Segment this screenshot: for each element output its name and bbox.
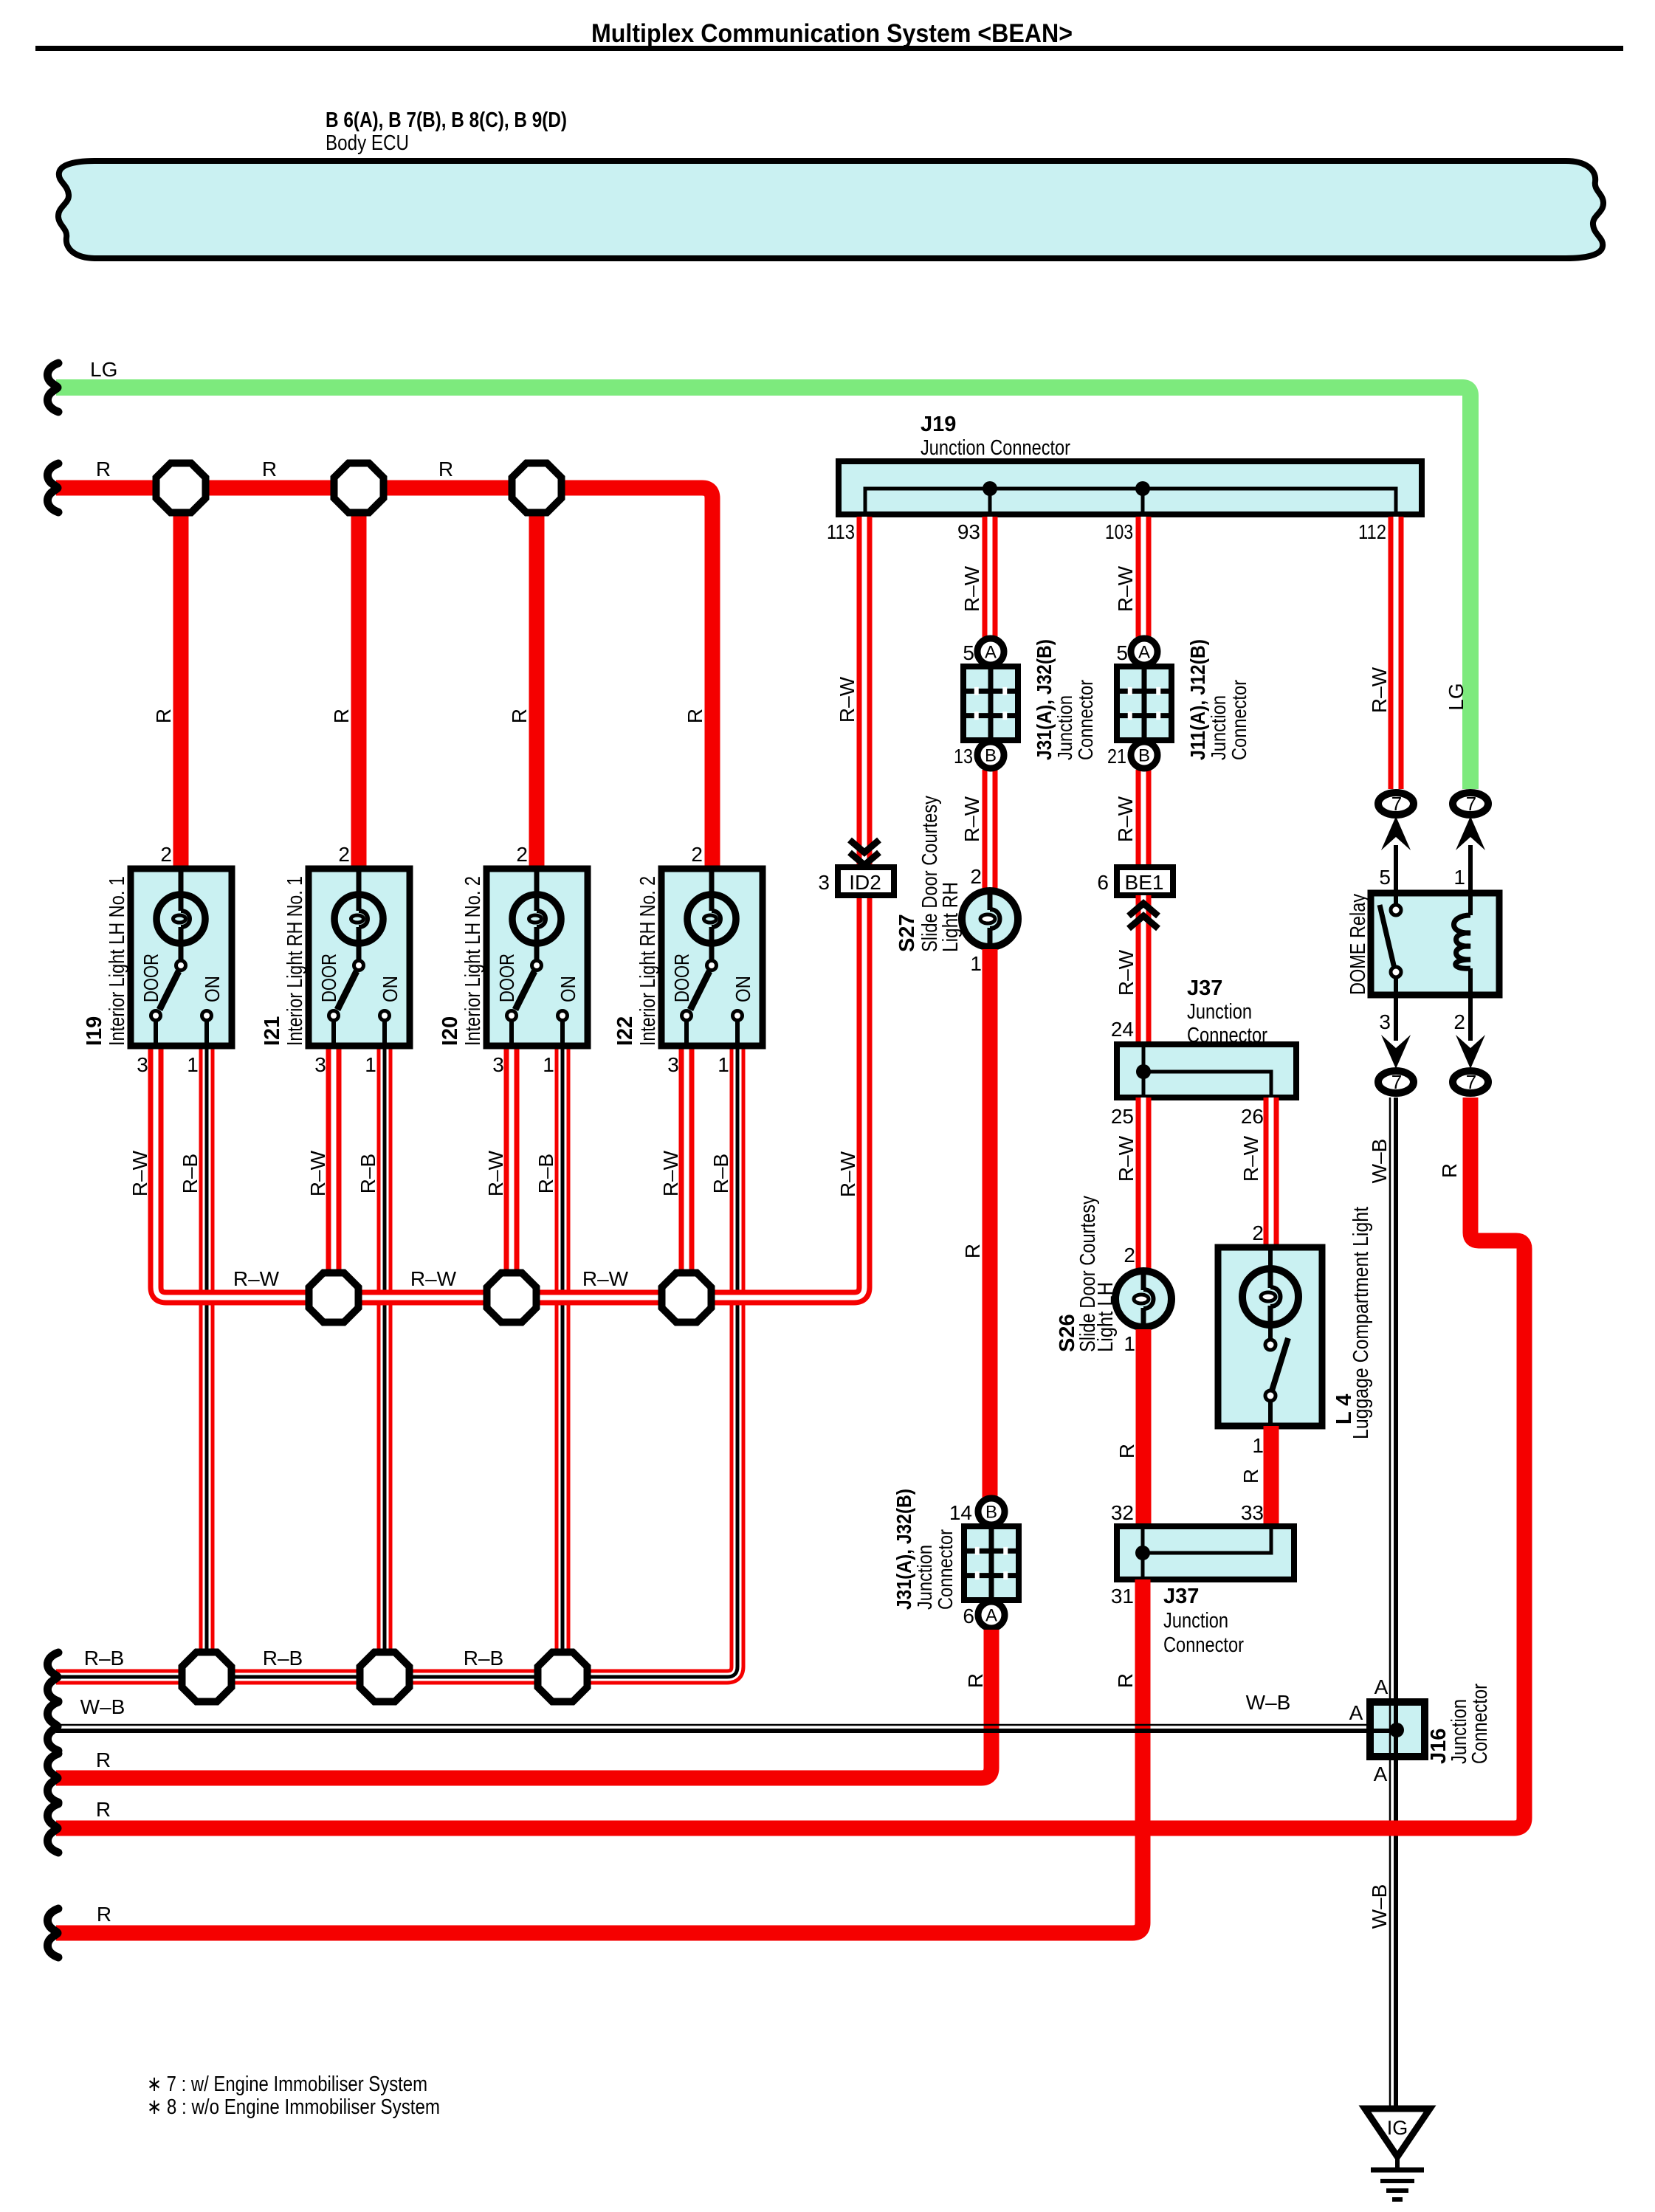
svg-text:R–W: R–W [960, 796, 983, 842]
svg-text:R: R [684, 709, 706, 723]
svg-text:Junction: Junction [913, 1545, 936, 1610]
wire R-B bus [56, 1046, 737, 1677]
svg-text:7: 7 [1391, 793, 1402, 815]
svg-text:R–W: R–W [1114, 565, 1137, 612]
junction node B2 [487, 1273, 537, 1323]
svg-text:J11(A), J12(B): J11(A), J12(B) [1186, 639, 1209, 760]
svg-text:Multiplex Communication System: Multiplex Communication System <BEAN> [591, 19, 1073, 48]
arrow to ID2 [850, 840, 879, 865]
arrow from BE1 [1129, 903, 1158, 928]
svg-text:Interior Light LH No. 1: Interior Light LH No. 1 [106, 876, 129, 1046]
wire LG from Body ECU to DOME relay [56, 387, 1470, 789]
svg-text:DOME Relay: DOME Relay [1346, 894, 1370, 995]
wire R-W pin3 drop x=693 [504, 1046, 520, 1298]
wire R-W BE1 to J37 [1136, 895, 1152, 1044]
wire R-W J37 to S26 [1136, 1098, 1152, 1272]
relay DOME Relay [1371, 893, 1499, 995]
svg-text:R–W: R–W [1115, 1135, 1138, 1182]
svg-text:Light RH: Light RH [939, 882, 963, 952]
svg-text:31: 31 [1111, 1585, 1134, 1608]
svg-text:LG: LG [90, 358, 117, 381]
svg-text:1: 1 [187, 1053, 199, 1076]
svg-text:S27: S27 [895, 914, 919, 952]
svg-text:R–W: R–W [836, 1151, 859, 1197]
svg-text:R: R [96, 1798, 111, 1821]
connector 7 bottom-left [1378, 1071, 1414, 1093]
svg-text:93: 93 [957, 520, 980, 543]
lamp-switch L4 Luggage Compartment Light [1218, 1247, 1322, 1426]
break R-B bus [47, 1653, 58, 1701]
junction connector J19 [839, 461, 1422, 514]
wire relay pin3 [1394, 995, 1398, 1041]
svg-text:Connector: Connector [1074, 680, 1097, 760]
interior light I19 [131, 869, 232, 1046]
svg-text:B: B [985, 746, 997, 766]
svg-text:112: 112 [1358, 520, 1386, 543]
svg-text:Interior Light RH No. 1: Interior Light RH No. 1 [283, 876, 307, 1046]
wire R-W pin3 drop x=930 [679, 1046, 695, 1298]
svg-text:2: 2 [691, 843, 703, 866]
svg-text:Junction Connector: Junction Connector [921, 436, 1070, 460]
svg-text:103: 103 [1105, 520, 1133, 543]
svg-text:R–W: R–W [410, 1267, 457, 1290]
svg-text:24: 24 [1111, 1018, 1134, 1041]
svg-text:Junction: Junction [1163, 1609, 1228, 1633]
wire R from relay pin2 [56, 1098, 1524, 1828]
svg-text:ID2: ID2 [849, 871, 881, 894]
wire R J37 lower down [56, 1579, 1143, 1933]
svg-text:Light LH: Light LH [1094, 1282, 1118, 1352]
svg-text:3: 3 [314, 1053, 326, 1076]
break R bus [47, 464, 58, 512]
svg-text:ON: ON [732, 976, 754, 1002]
svg-text:∗ 8 : w/o Engine Immobiliser S: ∗ 8 : w/o Engine Immobiliser System [147, 2095, 440, 2119]
junction node A3 [512, 464, 562, 513]
svg-text:ON: ON [201, 976, 224, 1002]
svg-text:R: R [964, 1673, 987, 1688]
svg-text:R–W: R–W [128, 1150, 151, 1196]
svg-text:B: B [1138, 746, 1150, 766]
wire relay pin1 [1468, 845, 1473, 915]
break R line1 [47, 1754, 58, 1802]
arrow up into 7 right [1456, 816, 1485, 850]
svg-text:3: 3 [818, 871, 830, 894]
junction connector J11(A) J12(B) [1117, 638, 1171, 768]
svg-text:Connector: Connector [1228, 680, 1250, 760]
svg-text:R–B: R–B [534, 1154, 557, 1193]
svg-text:J37: J37 [1187, 976, 1222, 1000]
junction node A1 [156, 464, 206, 513]
svg-text:Interior Light LH No. 2: Interior Light LH No. 2 [461, 876, 485, 1046]
svg-text:W–B: W–B [1246, 1691, 1291, 1714]
svg-text:Interior Light RH No. 2: Interior Light RH No. 2 [636, 876, 660, 1046]
svg-text:BE1: BE1 [1125, 871, 1164, 894]
svg-text:2: 2 [970, 865, 982, 888]
svg-text:R–W: R–W [659, 1150, 682, 1196]
junction node C1 [182, 1653, 232, 1702]
svg-text:Luggage Compartment Light: Luggage Compartment Light [1349, 1207, 1373, 1439]
svg-text:3: 3 [1379, 1010, 1391, 1033]
svg-text:A: A [985, 643, 997, 663]
wire R-B pin1 drop x=521 [377, 1046, 393, 1677]
junction node C3 [538, 1653, 588, 1702]
svg-text:R: R [508, 709, 531, 723]
arrow up into 7 left [1381, 816, 1411, 850]
svg-text:R: R [1438, 1163, 1461, 1178]
break W-B [47, 1702, 58, 1751]
wire R drop x=486 [351, 488, 367, 869]
svg-text:R: R [438, 458, 453, 480]
svg-text:32: 32 [1111, 1501, 1134, 1524]
wire R-W bus [156, 895, 864, 1298]
svg-text:R–W: R–W [233, 1267, 280, 1290]
svg-text:R–B: R–B [84, 1647, 124, 1670]
svg-text:25: 25 [1111, 1105, 1134, 1128]
svg-text:J37: J37 [1163, 1585, 1199, 1608]
svg-text:6: 6 [1097, 871, 1109, 894]
wire R-W col 112 [1389, 517, 1404, 789]
svg-text:Body ECU: Body ECU [326, 131, 409, 155]
connector BE1 [1117, 867, 1173, 895]
svg-text:LG: LG [1445, 683, 1468, 710]
svg-text:I19: I19 [83, 1016, 106, 1046]
svg-text:Junction: Junction [1187, 1000, 1252, 1024]
wire R-W J11 to BE1 [1136, 770, 1152, 867]
svg-text:W–B: W–B [80, 1695, 125, 1718]
wire R-W pin3 drop x=452 [326, 1046, 342, 1298]
svg-text:R–W: R–W [960, 565, 983, 612]
svg-text:3: 3 [667, 1053, 679, 1076]
junction node A2 [334, 464, 384, 513]
wire R drop x=727 [529, 488, 545, 869]
svg-text:3: 3 [492, 1053, 504, 1076]
svg-text:2: 2 [1252, 1222, 1264, 1244]
svg-text:R–W: R–W [1368, 666, 1391, 713]
svg-text:1: 1 [718, 1053, 729, 1076]
wire relay pin2 [1468, 995, 1473, 1041]
svg-text:R–W: R–W [582, 1267, 629, 1290]
junction node B1 [309, 1273, 359, 1323]
svg-text:DOOR: DOOR [670, 954, 693, 1002]
svg-text:1: 1 [1124, 1332, 1135, 1355]
svg-text:7: 7 [1466, 793, 1476, 815]
svg-text:R–W: R–W [1115, 949, 1138, 996]
junction J16 dot [1389, 1723, 1404, 1737]
wire R J31A down [56, 1630, 991, 1778]
svg-text:5: 5 [963, 641, 974, 664]
svg-text:113: 113 [827, 520, 855, 543]
svg-text:R–B: R–B [179, 1154, 202, 1193]
junction connector J37 upper [1117, 1044, 1296, 1098]
svg-text:J19: J19 [921, 413, 956, 436]
interior light I20 [486, 869, 588, 1046]
break R line2 [47, 1804, 58, 1853]
wire R-W J37 to L4 [1264, 1098, 1279, 1247]
svg-text:I22: I22 [613, 1016, 637, 1046]
wire R-W col 93 upper [983, 517, 998, 652]
connector 7 top-right [1453, 793, 1488, 815]
svg-text:Junction: Junction [1053, 695, 1076, 760]
wire relay pin5 [1394, 845, 1398, 910]
svg-text:ON: ON [379, 976, 402, 1002]
svg-text:26: 26 [1241, 1105, 1264, 1128]
svg-text:2: 2 [160, 843, 172, 866]
wire R S27 down [983, 949, 998, 1498]
junction node B3 [662, 1273, 712, 1323]
svg-text:DOOR: DOOR [140, 954, 162, 1002]
svg-text:A: A [1374, 1675, 1389, 1698]
svg-text:33: 33 [1241, 1501, 1264, 1524]
junction connector J16 box [1370, 1702, 1425, 1757]
wire R-B pin1 drop x=762 [555, 1046, 571, 1677]
lamp S26 Slide Door Courtesy Light LH [1115, 1271, 1171, 1327]
svg-text:R–W: R–W [306, 1150, 329, 1196]
connector 7 bottom-right [1453, 1071, 1488, 1093]
wire R-W col 103 upper [1136, 517, 1152, 652]
svg-text:W–B: W–B [1368, 1139, 1391, 1184]
wire R-B pin1 drop x=280 [199, 1046, 215, 1677]
svg-text:R: R [96, 458, 111, 480]
svg-text:14: 14 [949, 1501, 972, 1524]
svg-text:R: R [1239, 1469, 1262, 1484]
arrow down into 7 right [1456, 1035, 1485, 1069]
svg-text:R: R [961, 1244, 984, 1258]
wire R bus top [56, 488, 712, 869]
junction node C2 [360, 1653, 410, 1702]
wire R L4 to J37 lower [1264, 1426, 1279, 1526]
svg-text:A: A [1349, 1701, 1363, 1724]
svg-text:3: 3 [137, 1053, 148, 1076]
svg-text:I20: I20 [438, 1016, 462, 1046]
svg-text:DOOR: DOOR [495, 954, 518, 1002]
svg-text:R: R [97, 1903, 111, 1926]
svg-text:1: 1 [365, 1053, 376, 1076]
svg-text:R: R [1115, 1444, 1138, 1458]
svg-text:B 6(A), B 7(B), B 8(C), B 9(D): B 6(A), B 7(B), B 8(C), B 9(D) [326, 108, 567, 132]
svg-text:I21: I21 [261, 1016, 284, 1046]
junction connector J37 lower [1117, 1526, 1294, 1579]
connector ID2 [838, 867, 894, 895]
svg-text:1: 1 [1252, 1434, 1264, 1457]
svg-text:R–W: R–W [836, 676, 859, 723]
svg-text:∗ 7 : w/ Engine Immobiliser Sy: ∗ 7 : w/ Engine Immobiliser System [147, 2073, 427, 2096]
wire W-B vertical [1390, 1098, 1396, 2107]
connector 7 top-left [1378, 793, 1414, 815]
svg-text:R–W: R–W [484, 1150, 507, 1196]
svg-text:R–B: R–B [709, 1154, 732, 1193]
svg-text:ON: ON [557, 976, 579, 1002]
break R line3 [47, 1909, 58, 1957]
svg-text:Connector: Connector [1163, 1633, 1244, 1657]
svg-text:1: 1 [1453, 866, 1465, 889]
svg-text:R: R [1114, 1673, 1137, 1688]
svg-text:Connector: Connector [1468, 1684, 1492, 1764]
svg-text:A: A [985, 1606, 997, 1626]
svg-text:2: 2 [338, 843, 350, 866]
svg-text:R: R [96, 1748, 111, 1771]
ground IG [1365, 2109, 1430, 2199]
svg-text:R–W: R–W [1114, 796, 1137, 842]
svg-text:DOOR: DOOR [317, 954, 340, 1002]
svg-text:1: 1 [543, 1053, 554, 1076]
svg-text:J31(A), J32(B): J31(A), J32(B) [1033, 639, 1056, 760]
svg-text:R–W: R–W [1239, 1135, 1262, 1182]
wire R S26 to J37 lower [1136, 1329, 1152, 1526]
svg-text:2: 2 [1124, 1244, 1135, 1267]
wire R drop x=245 [173, 488, 189, 869]
svg-text:R–B: R–B [357, 1154, 379, 1193]
interior light I22 [661, 869, 763, 1046]
wire W-B horizontal [56, 1725, 1392, 1731]
svg-text:R: R [152, 709, 175, 723]
svg-text:IG: IG [1387, 2117, 1408, 2139]
svg-text:Connector: Connector [1187, 1024, 1267, 1047]
svg-text:13: 13 [954, 745, 973, 768]
svg-text:21: 21 [1107, 745, 1126, 768]
svg-text:5: 5 [1116, 641, 1128, 664]
svg-text:5: 5 [1379, 866, 1391, 889]
wire R-W col 113 [857, 517, 873, 895]
svg-text:2: 2 [516, 843, 528, 866]
svg-text:R–B: R–B [464, 1647, 503, 1670]
junction connector J31(A) J32(B) upper [963, 638, 1018, 768]
svg-text:7: 7 [1466, 1071, 1476, 1093]
wire R-W J31 to S27 [983, 770, 998, 892]
arrow down into 7 left [1381, 1035, 1411, 1069]
svg-text:B: B [985, 1503, 997, 1523]
svg-text:1: 1 [970, 952, 982, 975]
svg-text:Connector: Connector [934, 1529, 957, 1610]
svg-text:7: 7 [1391, 1071, 1402, 1093]
svg-text:W–B: W–B [1368, 1884, 1391, 1929]
interior light I21 [309, 869, 410, 1046]
svg-text:A: A [1374, 1763, 1388, 1785]
svg-text:2: 2 [1453, 1010, 1465, 1033]
svg-text:R–B: R–B [263, 1647, 303, 1670]
title rule [35, 46, 1623, 51]
lamp S27 Slide Door Courtesy Light RH [962, 891, 1018, 947]
junction connector J31(A) J32(B) lower [964, 1498, 1019, 1628]
svg-text:R: R [262, 458, 277, 480]
svg-text:Junction: Junction [1207, 695, 1230, 760]
connector B6(A) B7(B) B8(C) B9(D) Body ECU [58, 161, 1603, 258]
break LG [47, 363, 58, 412]
svg-text:R: R [330, 709, 353, 723]
svg-text:6: 6 [963, 1605, 974, 1627]
svg-text:J31(A), J32(B): J31(A), J32(B) [892, 1489, 915, 1610]
svg-text:A: A [1138, 643, 1150, 663]
